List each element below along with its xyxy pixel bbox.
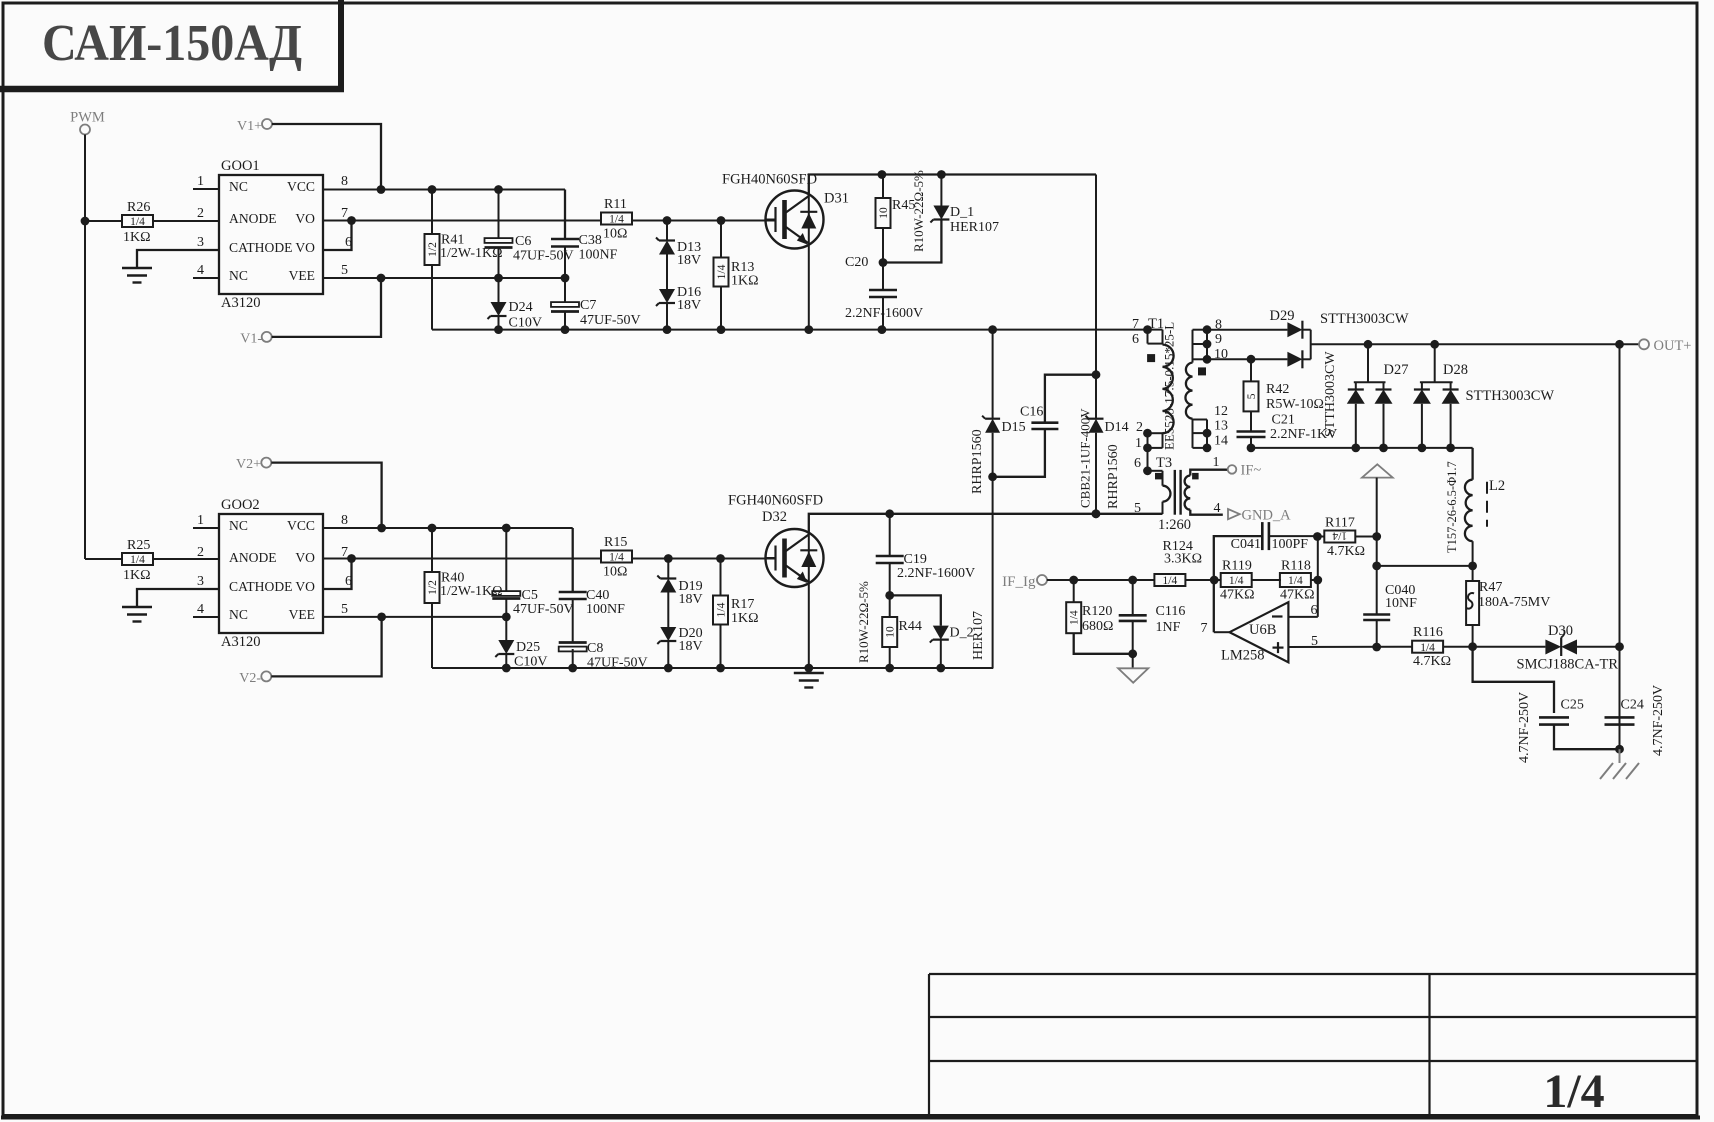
svg-text:2: 2	[197, 545, 204, 560]
wire C16 leads	[993, 370, 1101, 476]
resistor R118	[1280, 559, 1315, 603]
diode D24 zener	[488, 300, 542, 331]
wire D30 to OUT vertical	[1577, 642, 1624, 651]
svg-text:1/4: 1/4	[1163, 575, 1178, 587]
svg-text:18V: 18V	[679, 592, 703, 607]
svg-text:C16: C16	[1020, 405, 1043, 420]
svg-text:VO: VO	[295, 550, 315, 565]
resistor R13	[714, 258, 759, 289]
svg-text:6: 6	[1132, 332, 1139, 347]
resistor R42	[1244, 381, 1324, 412]
svg-text:CATHODE: CATHODE	[229, 579, 292, 594]
svg-text:18V: 18V	[679, 639, 703, 654]
capacitor C5	[492, 588, 573, 617]
capacitor C40	[559, 588, 625, 617]
svg-text:1/4: 1/4	[1069, 610, 1081, 625]
svg-text:1/4: 1/4	[1332, 529, 1347, 541]
wire D_2 leads	[890, 595, 941, 668]
capacitor C25	[1517, 692, 1584, 763]
wire D15 vertical	[988, 330, 997, 668]
svg-text:V1+: V1+	[237, 119, 262, 134]
svg-text:1/4: 1/4	[716, 602, 728, 617]
svg-text:САИ-150АД: САИ-150АД	[42, 15, 302, 72]
wire C25 bottom	[1554, 725, 1624, 754]
wire R26 to GOO1 pin2	[153, 220, 219, 222]
svg-text:NC: NC	[229, 179, 248, 194]
transformer T3 primary	[1134, 448, 1191, 533]
transformer T3 secondary	[1185, 455, 1228, 516]
resistor R26	[122, 200, 153, 245]
diode D19 zener 18V	[657, 576, 702, 608]
svg-text:R120: R120	[1082, 604, 1112, 619]
svg-text:D_1: D_1	[950, 205, 974, 220]
svg-text:1/2: 1/2	[427, 580, 439, 595]
svg-text:4.7KΩ: 4.7KΩ	[1327, 544, 1365, 559]
svg-text:1/4: 1/4	[1229, 575, 1244, 587]
svg-text:ANODE: ANODE	[229, 211, 277, 226]
svg-text:1KΩ: 1KΩ	[123, 230, 151, 245]
svg-text:1NF: 1NF	[1156, 620, 1181, 635]
resistor R40	[425, 571, 503, 604]
capacitor C8	[559, 641, 648, 671]
svg-text:VO: VO	[295, 240, 315, 255]
svg-text:D31: D31	[824, 191, 849, 207]
inductor L2 T157-26-6.5	[1445, 448, 1505, 566]
wire R117 leads	[1313, 532, 1381, 541]
wire GOO2 VO rail	[323, 558, 602, 560]
wire R47 bottom to C25	[1473, 647, 1554, 713]
svg-text:SMCJ188CA-TR: SMCJ188CA-TR	[1517, 657, 1619, 673]
ground chassis earth	[1600, 749, 1639, 779]
svg-text:5: 5	[341, 263, 348, 278]
wire D32 emitter	[808, 582, 810, 668]
wire R44 leads	[889, 595, 891, 668]
terminal IF_Ig	[1002, 574, 1047, 590]
svg-text:NC: NC	[229, 518, 248, 533]
wire R47 leads	[1468, 566, 1477, 651]
svg-text:STTH3003CW: STTH3003CW	[1320, 311, 1409, 327]
svg-text:47KΩ: 47KΩ	[1280, 588, 1315, 603]
svg-text:R117: R117	[1325, 516, 1355, 531]
svg-text:3: 3	[197, 574, 204, 589]
svg-text:CATHODE: CATHODE	[229, 240, 292, 255]
svg-text:1/4: 1/4	[1543, 1065, 1604, 1118]
resistor R45	[876, 170, 927, 252]
svg-text:V2-: V2-	[239, 671, 261, 686]
svg-text:7: 7	[1201, 621, 1208, 636]
svg-text:7: 7	[1132, 317, 1139, 332]
wire D25 leads	[505, 617, 507, 668]
svg-text:2.2NF-1600V: 2.2NF-1600V	[845, 306, 923, 321]
svg-text:12: 12	[1214, 404, 1228, 419]
svg-text:U6B: U6B	[1249, 622, 1276, 638]
diode D27 dual STTH3003CW	[1347, 344, 1409, 452]
svg-text:C6: C6	[515, 234, 531, 249]
svg-text:A3120: A3120	[221, 634, 260, 650]
wire emitter rail ch2	[432, 664, 993, 673]
ground GOO1	[122, 268, 152, 283]
wire C8 leads	[572, 649, 574, 668]
resistor R15	[601, 535, 632, 580]
op-amp GOO2 optocoupler A3120	[193, 497, 352, 650]
diode D20 zener 18V	[657, 626, 702, 654]
diode D28 dual STTH3003CW	[1413, 344, 1468, 452]
wire GOO1 VO rail	[323, 220, 602, 222]
capacitor C116	[1119, 604, 1186, 635]
wire GOO2 cathode to ground	[137, 589, 219, 606]
svg-text:STTH3003CW: STTH3003CW	[1466, 388, 1555, 404]
svg-text:C20: C20	[845, 255, 868, 270]
resistor R11	[601, 197, 632, 242]
svg-text:RHRP1560: RHRP1560	[1106, 444, 1121, 509]
label STTH3003CW right of D28	[1466, 388, 1555, 404]
resistor R124	[1154, 539, 1202, 587]
resistor R17	[713, 596, 759, 627]
wire D_1 leads	[883, 175, 941, 263]
svg-text:2.2NF-1600V: 2.2NF-1600V	[897, 566, 975, 581]
svg-text:2: 2	[197, 206, 204, 221]
terminal OUT+	[1639, 338, 1691, 354]
wire opamp output pin7	[1214, 631, 1230, 633]
wire PWM vertical	[81, 135, 90, 560]
wire PWM to R26	[85, 220, 122, 222]
svg-text:D27: D27	[1384, 362, 1409, 378]
op-amp U6B LM258	[1201, 602, 1319, 663]
ground GOO2	[122, 607, 152, 622]
wire R13 leads	[720, 221, 722, 330]
svg-text:D30: D30	[1548, 623, 1573, 639]
svg-text:R10W-22Ω-5%: R10W-22Ω-5%	[856, 581, 871, 663]
wire secondary anode rail	[1251, 447, 1473, 449]
resistor R116	[1412, 625, 1451, 669]
wire R119-R118	[1252, 579, 1281, 581]
wire GND_A node vertical	[1372, 537, 1381, 571]
transformer T1 primary	[1132, 316, 1174, 452]
wire D14 vertical	[1092, 175, 1101, 519]
svg-text:HER107: HER107	[950, 220, 999, 235]
svg-text:V1-: V1-	[240, 332, 262, 347]
net flag GND_A at T3	[1228, 508, 1291, 524]
svg-text:1: 1	[1213, 455, 1220, 470]
svg-text:10Ω: 10Ω	[603, 227, 627, 242]
resistor R41	[425, 233, 503, 266]
svg-text:1: 1	[1135, 436, 1142, 451]
capacitor C19	[876, 552, 975, 581]
wire C040 leads	[1372, 566, 1381, 651]
svg-text:C7: C7	[580, 298, 596, 313]
transformer T1 secondary	[1185, 318, 1228, 453]
svg-text:4: 4	[197, 602, 204, 617]
svg-text:13: 13	[1214, 419, 1228, 434]
wire R25 to GOO2 pin2	[153, 558, 219, 560]
title box	[0, 0, 344, 92]
svg-text:R116: R116	[1413, 625, 1443, 640]
svg-text:FGH40N60SFD: FGH40N60SFD	[722, 172, 817, 188]
wire PWM corner to R25	[85, 558, 122, 560]
svg-text:R17: R17	[731, 597, 754, 612]
resistor R119	[1220, 559, 1255, 603]
svg-text:4.7KΩ: 4.7KΩ	[1413, 654, 1451, 669]
svg-text:5: 5	[1134, 501, 1141, 516]
wire OUT+ vertical drop	[1619, 344, 1621, 749]
polarity dot T1 primary	[1148, 355, 1155, 362]
wire R124 to node	[1185, 576, 1221, 585]
svg-text:14: 14	[1214, 434, 1228, 449]
polarity dot T3 secondary	[1193, 473, 1199, 479]
svg-text:EE5525-17:5-0.15*25-L: EE5525-17:5-0.15*25-L	[1162, 322, 1177, 450]
wire R45 leads	[879, 175, 888, 267]
svg-text:LM258: LM258	[1221, 648, 1265, 664]
svg-text:C40: C40	[586, 588, 609, 603]
terminal V1+	[237, 119, 272, 134]
svg-text:5: 5	[1246, 393, 1258, 399]
wire R40 vertical	[431, 528, 433, 668]
capacitor C6	[485, 234, 574, 264]
capacitor C041 100PF	[1231, 522, 1309, 552]
wire GOO2 VEE rail	[323, 613, 511, 622]
svg-text:4.7NF-250V: 4.7NF-250V	[1651, 685, 1666, 756]
svg-text:10NF: 10NF	[1385, 596, 1417, 611]
wire GOO1 VEE rail	[323, 274, 569, 283]
svg-text:9: 9	[1215, 332, 1222, 347]
svg-text:C8: C8	[587, 641, 603, 656]
svg-text:D_2: D_2	[950, 626, 974, 641]
wire R41 vertical	[431, 190, 433, 330]
svg-text:1KΩ: 1KΩ	[123, 568, 151, 583]
svg-text:D32: D32	[762, 509, 787, 525]
svg-text:C19: C19	[904, 552, 927, 567]
diode D15 RHRP1560	[970, 416, 1026, 494]
svg-text:3.3KΩ: 3.3KΩ	[1164, 552, 1202, 567]
diode D30 TVS SMCJ188CA-TR	[1517, 623, 1619, 673]
wire D19-D20 leads	[667, 559, 669, 669]
svg-text:8: 8	[341, 513, 348, 528]
svg-text:L2: L2	[1489, 478, 1505, 494]
svg-text:1/4: 1/4	[130, 554, 145, 566]
svg-text:OUT+: OUT+	[1654, 338, 1692, 354]
svg-text:100NF: 100NF	[579, 248, 618, 263]
wire V1- to VEE	[272, 278, 381, 337]
diode D29 dual STTH3003CW	[1207, 308, 1409, 368]
svg-text:IF_Ig: IF_Ig	[1002, 574, 1036, 590]
svg-text:R118: R118	[1281, 559, 1311, 574]
diode D14 RHRP1560	[1086, 416, 1129, 509]
capacitor C20	[845, 255, 923, 321]
wire C21 lead	[1247, 437, 1256, 452]
svg-text:3: 3	[197, 235, 204, 250]
diode D_1 HER107	[930, 205, 999, 235]
wire T1 pin10 to D29	[1207, 358, 1251, 360]
svg-text:C041: C041	[1231, 537, 1261, 552]
polarity dot T3 primary	[1156, 473, 1162, 479]
wire D31 emitter	[808, 244, 810, 330]
resistor R120	[1066, 602, 1113, 634]
svg-text:100NF: 100NF	[586, 602, 625, 617]
capacitor C7	[551, 298, 641, 328]
transformer T1 label	[1162, 322, 1177, 450]
capacitor C21	[1237, 413, 1338, 443]
svg-text:C21: C21	[1272, 413, 1295, 428]
svg-text:18V: 18V	[677, 253, 701, 268]
wire emitter rail ch1	[432, 325, 1152, 334]
svg-text:D15: D15	[1002, 420, 1026, 435]
wire V2- to VEE	[271, 617, 381, 677]
svg-text:VO: VO	[295, 579, 315, 594]
svg-text:47UF-50V: 47UF-50V	[513, 602, 574, 617]
wire C6 leads	[498, 190, 500, 279]
svg-text:VEE: VEE	[289, 268, 315, 283]
wire C041 loop left	[1214, 536, 1263, 632]
svg-text:1/4: 1/4	[609, 552, 624, 564]
svg-text:R119: R119	[1222, 559, 1252, 574]
ground GND_A analog flag	[1118, 654, 1148, 683]
svg-text:D25: D25	[516, 640, 540, 655]
wire C20 leads	[882, 263, 884, 330]
ground D32 emitter	[794, 673, 824, 688]
svg-text:R15: R15	[604, 535, 627, 550]
svg-text:4: 4	[197, 263, 204, 278]
wire D31 collector	[809, 170, 1096, 196]
wire OUT+ rail	[1311, 340, 1639, 349]
svg-text:1KΩ: 1KΩ	[731, 611, 759, 626]
diode D13 zener 18V	[656, 238, 701, 269]
svg-text:R5W-10Ω: R5W-10Ω	[1266, 397, 1324, 412]
wire GOO2 VO pins join	[323, 554, 356, 589]
diode D16 zener 18V	[656, 285, 701, 313]
svg-text:10Ω: 10Ω	[603, 565, 627, 580]
svg-text:1KΩ: 1KΩ	[731, 274, 759, 289]
svg-text:1/2: 1/2	[427, 242, 439, 257]
wire R11 to gate	[632, 216, 776, 225]
wire C7 leads	[564, 278, 566, 330]
resistor R117	[1324, 516, 1365, 560]
capacitor C040	[1363, 583, 1417, 620]
svg-text:7: 7	[341, 206, 348, 221]
svg-text:680Ω: 680Ω	[1082, 619, 1113, 634]
svg-text:5: 5	[341, 602, 348, 617]
svg-text:RHRP1560: RHRP1560	[970, 429, 985, 494]
op-amp GOO1 optocoupler A3120	[193, 158, 352, 311]
svg-text:1/4: 1/4	[716, 264, 728, 279]
svg-text:HER107: HER107	[971, 611, 986, 660]
title block table	[929, 974, 1697, 1116]
diode D25 zener	[495, 640, 547, 670]
wire R120 leads	[1074, 580, 1133, 654]
svg-text:R44: R44	[899, 619, 922, 634]
svg-text:6: 6	[1311, 603, 1318, 618]
svg-text:FGH40N60SFD: FGH40N60SFD	[728, 493, 823, 509]
svg-text:ANODE: ANODE	[229, 550, 277, 565]
wire C5 leads	[505, 528, 507, 617]
svg-text:C25: C25	[1561, 698, 1584, 713]
wire R17 leads	[720, 559, 722, 669]
terminal V1-	[240, 332, 271, 347]
resistor R47 shunt 180A-75MV	[1466, 580, 1550, 625]
svg-text:4.7NF-250V: 4.7NF-250V	[1517, 692, 1532, 763]
svg-text:PWM: PWM	[70, 110, 105, 126]
resistor R44	[856, 581, 922, 663]
capacitor C38	[551, 233, 618, 263]
svg-text:D14: D14	[1105, 420, 1129, 435]
svg-text:18V: 18V	[677, 298, 701, 313]
svg-text:10: 10	[885, 626, 897, 638]
svg-text:R25: R25	[127, 538, 150, 553]
wire GOO1 VCC rail	[323, 185, 565, 194]
svg-text:R47: R47	[1479, 580, 1502, 595]
wire C116 leads	[1128, 580, 1137, 658]
svg-text:GOO1: GOO1	[221, 158, 260, 174]
wire D32 collector	[809, 509, 1163, 534]
svg-text:VO: VO	[295, 211, 315, 226]
terminal IF~	[1228, 463, 1262, 479]
svg-text:6: 6	[1134, 456, 1141, 471]
svg-text:47KΩ: 47KΩ	[1220, 588, 1255, 603]
wire D13-D16 leads	[666, 221, 668, 330]
wire R118 right	[1310, 576, 1322, 585]
title block page number 1/4	[1543, 1065, 1604, 1118]
svg-text:2: 2	[1136, 420, 1143, 435]
resistor R25	[122, 538, 153, 583]
svg-text:R10W-22Ω-5%: R10W-22Ω-5%	[911, 170, 926, 252]
svg-text:1/4: 1/4	[130, 216, 145, 228]
svg-text:1: 1	[197, 513, 204, 528]
wire R15 to gate	[632, 554, 776, 563]
svg-text:47UF-50V: 47UF-50V	[580, 313, 641, 328]
svg-text:NC: NC	[229, 268, 248, 283]
terminal PWM	[70, 110, 105, 135]
diode D_2 HER107	[930, 611, 986, 660]
wire GOO2 VCC rail	[323, 524, 573, 533]
wire V1+ to VCC rail	[272, 124, 385, 194]
wire pin6 vertical	[1288, 536, 1317, 617]
svg-text:R42: R42	[1266, 382, 1289, 397]
svg-text:CBB21-1UF-400V: CBB21-1UF-400V	[1078, 408, 1093, 508]
svg-text:C5: C5	[522, 588, 538, 603]
svg-text:VEE: VEE	[289, 607, 315, 622]
wire GOO1 cathode to ground	[137, 250, 219, 267]
svg-text:1:260: 1:260	[1158, 517, 1191, 533]
svg-text:D28: D28	[1443, 362, 1468, 378]
svg-text:C116: C116	[1156, 604, 1186, 619]
svg-text:IF~: IF~	[1241, 463, 1262, 479]
svg-text:T157-26-6.5-Φ1.7: T157-26-6.5-Φ1.7	[1445, 461, 1459, 553]
title text CAI-150AD	[42, 15, 302, 72]
svg-text:GOO2: GOO2	[221, 497, 260, 513]
svg-text:10: 10	[878, 207, 890, 219]
polarity dot T1 secondary	[1199, 368, 1206, 375]
wire GOO1 VO pins join	[323, 216, 356, 250]
svg-text:VCC: VCC	[287, 518, 315, 533]
svg-text:STTH3003CW: STTH3003CW	[1323, 351, 1338, 437]
svg-text:5: 5	[1311, 634, 1318, 649]
svg-text:D29: D29	[1270, 308, 1295, 324]
label STTH3003CW vertical	[1323, 351, 1338, 437]
svg-text:C38: C38	[579, 233, 602, 248]
svg-text:A3120: A3120	[221, 295, 260, 311]
capacitor C24	[1605, 685, 1667, 756]
svg-text:4: 4	[1214, 501, 1221, 516]
svg-text:GND_A: GND_A	[1242, 508, 1292, 524]
svg-text:D24: D24	[509, 300, 533, 315]
svg-text:1: 1	[197, 174, 204, 189]
svg-text:1/4: 1/4	[1288, 575, 1303, 587]
svg-text:V2+: V2+	[236, 457, 261, 472]
wire opamp out rail	[1288, 646, 1545, 648]
svg-text:8: 8	[341, 174, 348, 189]
svg-text:R11: R11	[604, 197, 627, 212]
svg-text:1/4: 1/4	[609, 214, 624, 226]
capacitor C16 CBB21-1UF-400V	[1020, 405, 1093, 509]
